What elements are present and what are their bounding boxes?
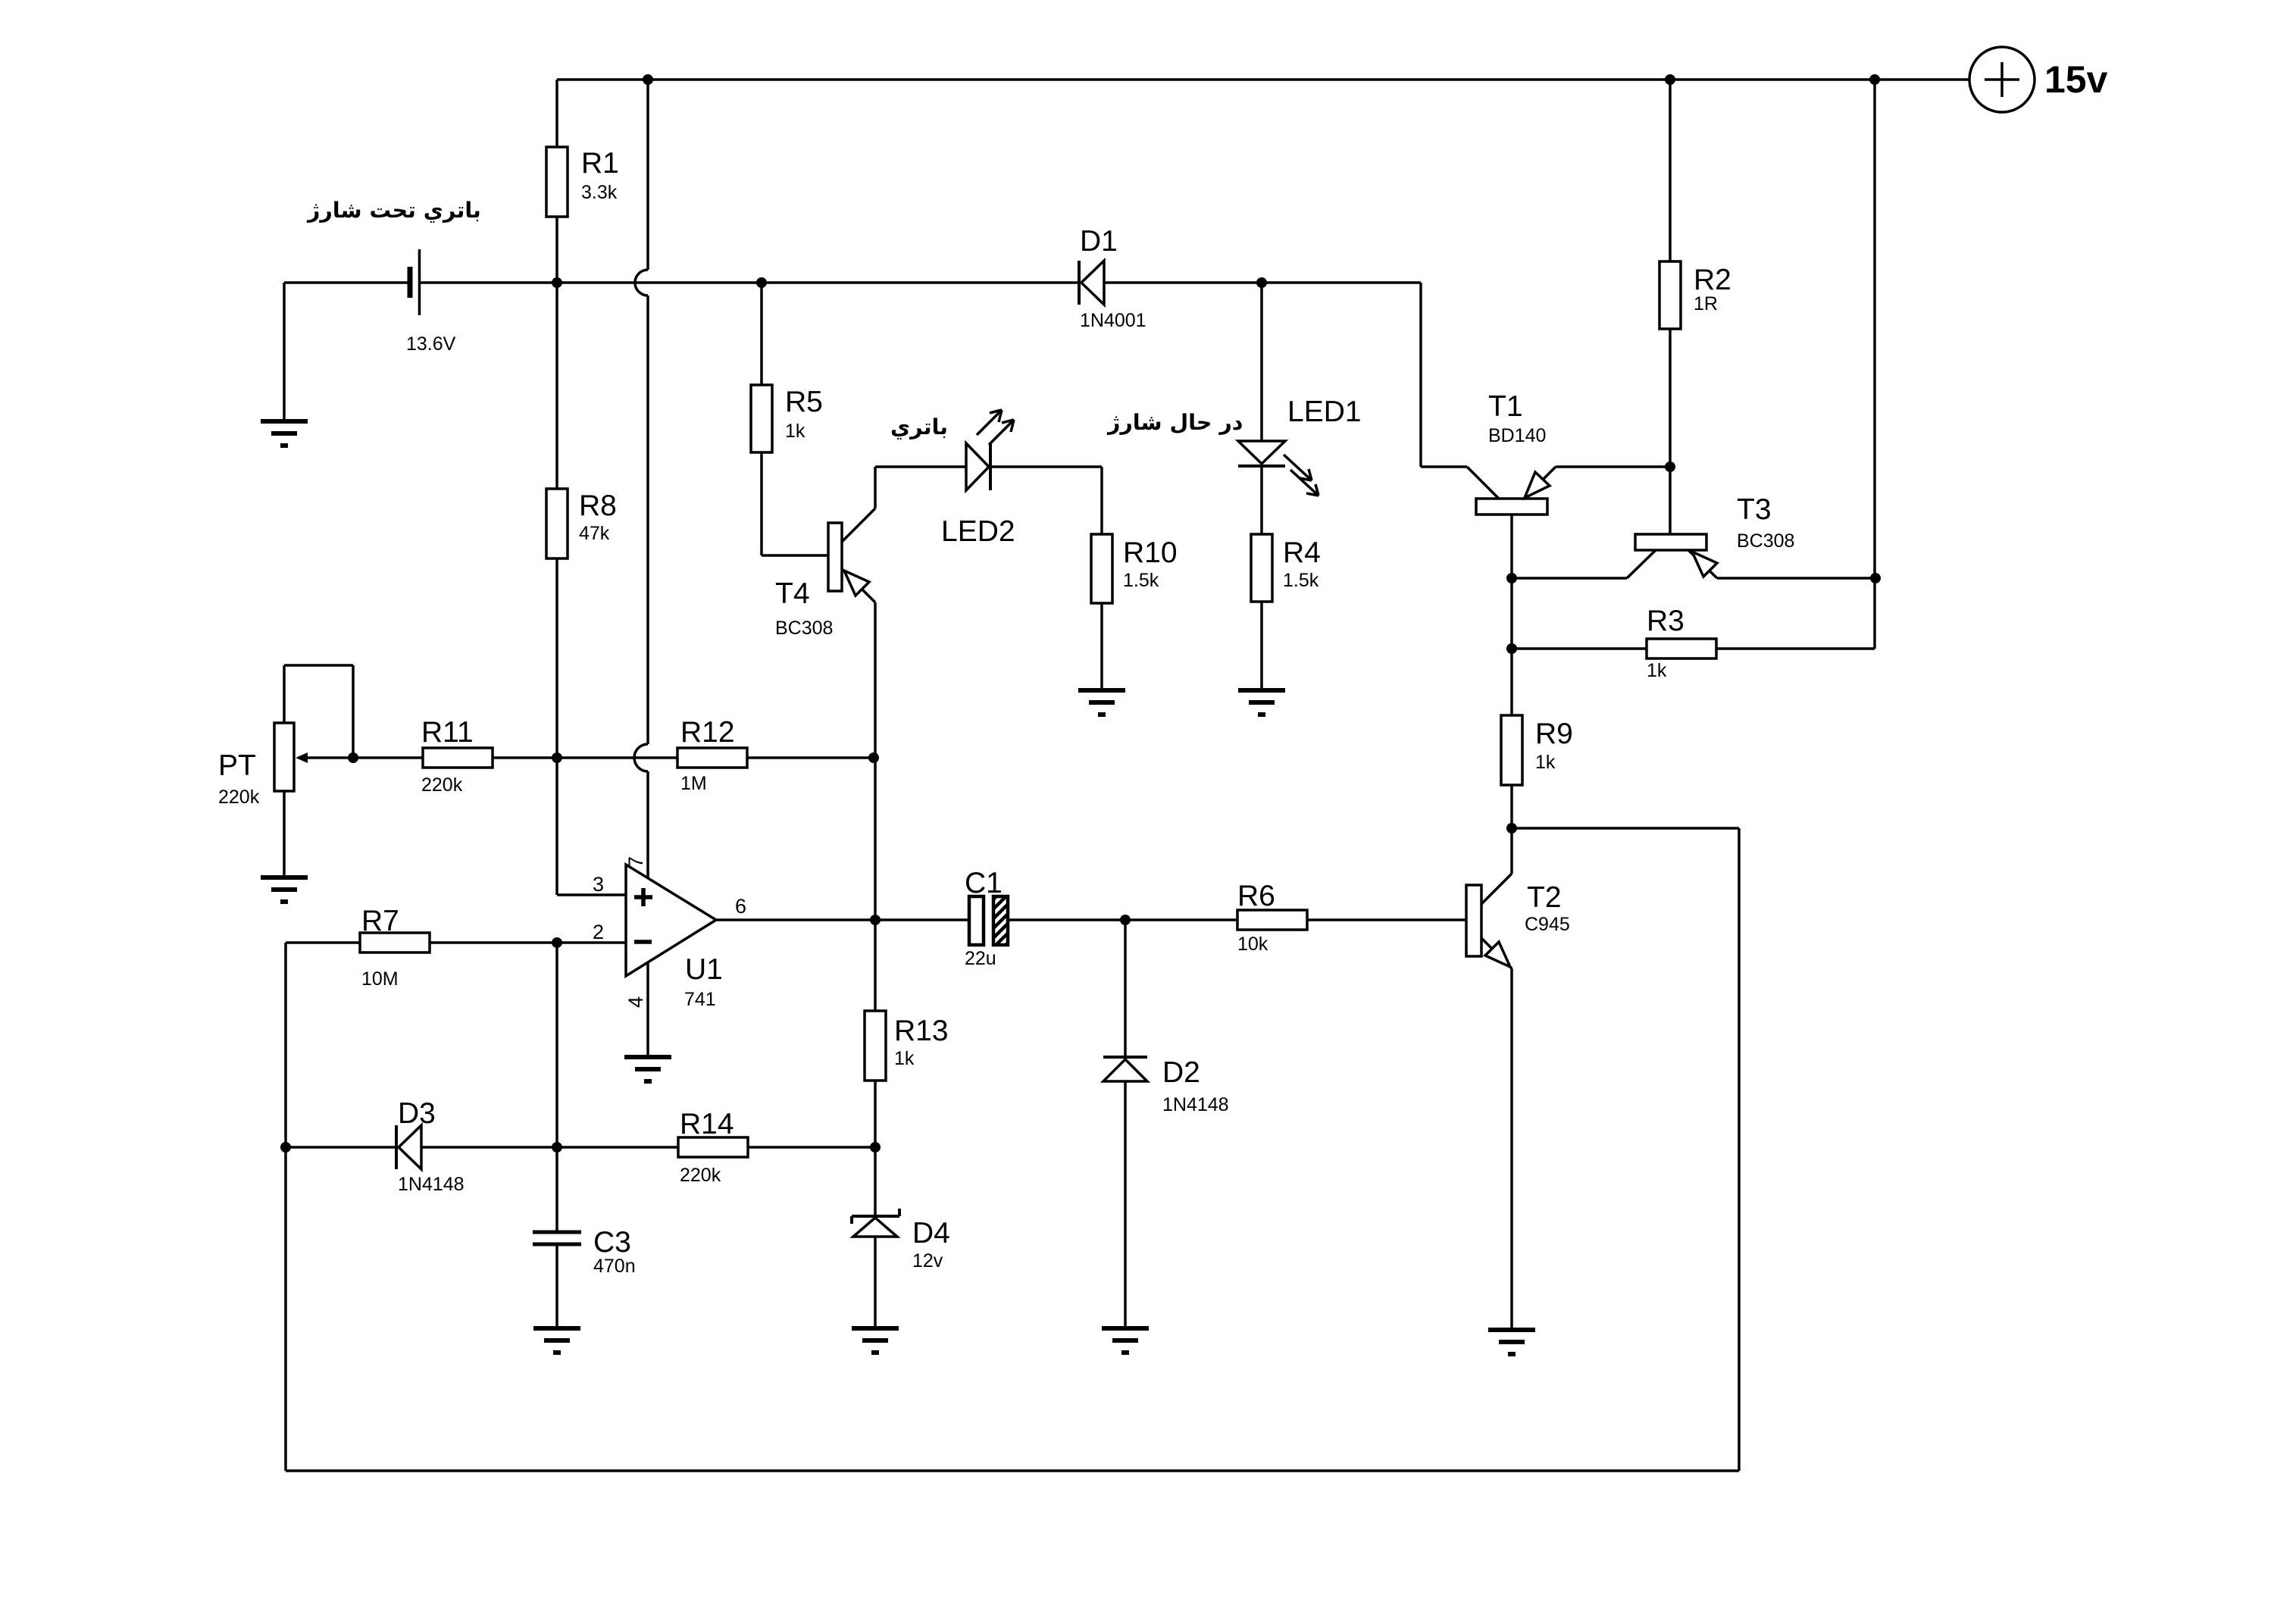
transistor T2 C945 xyxy=(1466,828,1570,968)
op-amp U1 741 xyxy=(626,865,723,1010)
node battery-R5 xyxy=(756,277,767,288)
node D3-R14-C3 xyxy=(552,1142,562,1153)
node R3-T1 collector xyxy=(1506,643,1517,654)
wire T3 collector to T1 xyxy=(1512,577,1627,580)
transistor T4 BC308 xyxy=(775,467,875,639)
power source +15v xyxy=(1969,47,2108,112)
node PT wiper xyxy=(348,752,358,763)
node R7-pin2 xyxy=(552,937,562,948)
svg-text:BC308: BC308 xyxy=(1737,530,1794,552)
svg-text:T2: T2 xyxy=(1527,881,1562,914)
svg-text:R6: R6 xyxy=(1237,880,1275,912)
svg-text:470n: 470n xyxy=(593,1256,636,1277)
svg-text:D4: D4 xyxy=(912,1217,950,1250)
resistor R8 xyxy=(546,283,617,758)
svg-text:D1: D1 xyxy=(1080,225,1118,258)
wire rail to op-amp pin 7 (with hops) xyxy=(634,80,648,878)
node T1e-R2-T3b xyxy=(1665,461,1675,472)
node battery-R1-R8 xyxy=(552,277,562,288)
svg-text:PT: PT xyxy=(218,749,256,782)
wire T2 emitter to ground xyxy=(1510,968,1513,1328)
node R12-T4e xyxy=(868,752,879,763)
svg-text:D3: D3 xyxy=(398,1097,436,1130)
resistor R7 xyxy=(286,905,557,990)
transistor T1 BD140 xyxy=(1467,390,1556,578)
svg-text:1R: 1R xyxy=(1694,293,1718,314)
resistor R4 xyxy=(1251,534,1321,688)
wire left column xyxy=(284,943,287,1471)
node D1-LED1 xyxy=(1256,277,1267,288)
node C1-D2-R6 xyxy=(1120,915,1131,925)
node rail-right junction xyxy=(1869,74,1880,85)
svg-text:C1: C1 xyxy=(965,867,1003,899)
svg-text:1N4148: 1N4148 xyxy=(1162,1094,1229,1115)
svg-text:1k: 1k xyxy=(785,421,805,442)
wire LED2 to R10 xyxy=(990,467,1102,534)
svg-text:U1: U1 xyxy=(685,953,723,986)
node rail-R2 junction xyxy=(1665,74,1675,85)
svg-text:R12: R12 xyxy=(680,716,735,749)
svg-text:T3: T3 xyxy=(1737,493,1772,526)
resistor R11 xyxy=(353,716,557,796)
label charging (Arabic) xyxy=(1107,413,1242,435)
wire T4 emitter down xyxy=(874,602,877,920)
svg-text:BD140: BD140 xyxy=(1488,425,1546,446)
pin 4 label xyxy=(624,996,647,1008)
node D3 row left xyxy=(280,1142,291,1153)
svg-text:R13: R13 xyxy=(894,1015,949,1047)
node T2 collector xyxy=(1506,823,1517,834)
wire battery row xyxy=(421,281,1079,284)
svg-text:3.3k: 3.3k xyxy=(581,182,618,203)
resistor R2 xyxy=(1659,80,1731,467)
svg-text:12v: 12v xyxy=(912,1250,943,1271)
svg-text:LED2: LED2 xyxy=(941,515,1015,548)
svg-text:R11: R11 xyxy=(421,716,474,749)
wire to pin 3 xyxy=(557,758,626,895)
resistor R5 xyxy=(751,283,827,555)
ground D2 xyxy=(1102,1328,1149,1353)
svg-text:1N4148: 1N4148 xyxy=(398,1174,465,1195)
label battery-under-charge (Arabic) xyxy=(307,201,480,223)
wire to pin 2 xyxy=(557,941,626,944)
svg-text:2: 2 xyxy=(593,921,604,943)
svg-text:47k: 47k xyxy=(579,523,610,544)
svg-text:BC308: BC308 xyxy=(775,618,833,639)
svg-text:15v: 15v xyxy=(2044,58,2108,101)
svg-text:R8: R8 xyxy=(579,490,617,522)
svg-text:1k: 1k xyxy=(1535,752,1556,773)
svg-text:6: 6 xyxy=(735,895,746,918)
wire battery to ground xyxy=(283,283,286,419)
svg-text:LED1: LED1 xyxy=(1287,396,1362,428)
wire pin 4 to ground xyxy=(646,962,649,1055)
svg-text:4: 4 xyxy=(624,996,647,1008)
svg-text:R4: R4 xyxy=(1283,536,1321,569)
svg-text:T4: T4 xyxy=(775,577,810,610)
wire T1 emitter to R2 node xyxy=(1556,465,1670,468)
wire op-amp output xyxy=(716,918,970,921)
ground C3 xyxy=(533,1328,580,1353)
svg-text:1k: 1k xyxy=(894,1048,915,1069)
svg-text:220k: 220k xyxy=(421,774,463,796)
ground PT xyxy=(261,877,308,902)
pin 2 label xyxy=(593,921,604,943)
potentiometer PT 220k xyxy=(218,665,353,808)
svg-text:1M: 1M xyxy=(680,773,707,794)
resistor R13 xyxy=(865,920,949,1147)
wire C1 to R6 xyxy=(1008,918,1237,921)
svg-text:C3: C3 xyxy=(593,1226,631,1259)
node rail-hop junction xyxy=(643,74,653,85)
ground R4 xyxy=(1238,690,1285,715)
resistor R14 xyxy=(557,1108,875,1186)
svg-text:220k: 220k xyxy=(218,787,260,808)
svg-text:R10: R10 xyxy=(1123,536,1178,569)
wire PT to ground xyxy=(283,791,286,875)
wire LED1 to R4 xyxy=(1260,466,1263,534)
node output-R13 xyxy=(870,915,881,925)
pin 6 label xyxy=(735,895,746,918)
svg-text:R7: R7 xyxy=(361,905,399,937)
diode D2 1N4148 xyxy=(1103,920,1229,1327)
LED LED2 xyxy=(875,410,1015,548)
ground D4 xyxy=(852,1328,899,1353)
svg-text:1.5k: 1.5k xyxy=(1123,570,1159,591)
node T1c-T3c xyxy=(1506,573,1517,583)
svg-text:R5: R5 xyxy=(785,386,823,418)
resistor R6 xyxy=(1237,880,1466,955)
node R13-R14-D4 xyxy=(870,1142,881,1153)
resistor R3 xyxy=(1512,605,1875,681)
wire +15V rail xyxy=(557,78,1969,81)
wire T2 collector to right down xyxy=(1512,828,1739,1471)
ground T2 xyxy=(1488,1330,1535,1354)
capacitor C3 470n xyxy=(533,943,636,1327)
node T3e-right rail xyxy=(1870,573,1881,583)
svg-text:R9: R9 xyxy=(1535,718,1573,750)
wire R2 node to T3 base xyxy=(1669,467,1672,534)
wire D1 to T1 corner xyxy=(1104,281,1421,284)
svg-text:7: 7 xyxy=(624,856,647,868)
node R8-R11-R12 xyxy=(552,752,562,763)
svg-text:13.6V: 13.6V xyxy=(406,333,456,355)
label battery-LED (Arabic) xyxy=(892,418,946,439)
svg-text:C945: C945 xyxy=(1525,914,1570,935)
ground R10 xyxy=(1078,690,1125,715)
svg-text:220k: 220k xyxy=(680,1165,721,1186)
diode D3 1N4148 xyxy=(286,1097,557,1195)
svg-text:1N4001: 1N4001 xyxy=(1080,310,1146,331)
wire T1 collector down xyxy=(1510,578,1513,715)
svg-text:R2: R2 xyxy=(1694,264,1731,296)
wire T3 emitter to right rail xyxy=(1717,577,1875,580)
LED LED1 xyxy=(1238,283,1362,496)
ground U1 xyxy=(624,1057,671,1081)
wire D1 row to T1 xyxy=(1421,283,1467,467)
pin 3 label xyxy=(593,873,604,896)
resistor R12 xyxy=(557,716,874,794)
transistor T3 BC308 xyxy=(1627,493,1794,578)
svg-text:1k: 1k xyxy=(1647,660,1667,681)
wire right rail vertical xyxy=(1873,80,1876,649)
svg-text:R14: R14 xyxy=(680,1108,734,1140)
svg-text:741: 741 xyxy=(684,989,716,1010)
svg-text:T1: T1 xyxy=(1488,390,1523,423)
wire bottom return xyxy=(286,1469,1739,1472)
svg-text:10M: 10M xyxy=(361,968,399,990)
pin 7 label xyxy=(624,856,647,868)
diode D1 1N4001 xyxy=(1079,225,1146,331)
svg-text:1.5k: 1.5k xyxy=(1283,570,1319,591)
resistor R9 xyxy=(1501,715,1573,828)
zener diode D4 12v xyxy=(852,1147,950,1327)
resistor R10 xyxy=(1091,534,1178,688)
svg-text:D2: D2 xyxy=(1162,1056,1200,1089)
svg-text:R1: R1 xyxy=(581,147,619,180)
resistor R1 xyxy=(546,80,619,283)
battery 13.6V xyxy=(284,249,456,355)
svg-text:10k: 10k xyxy=(1237,934,1268,955)
svg-text:R3: R3 xyxy=(1647,605,1684,637)
svg-text:22u: 22u xyxy=(965,948,996,969)
svg-text:3: 3 xyxy=(593,873,604,896)
ground battery xyxy=(261,421,308,446)
